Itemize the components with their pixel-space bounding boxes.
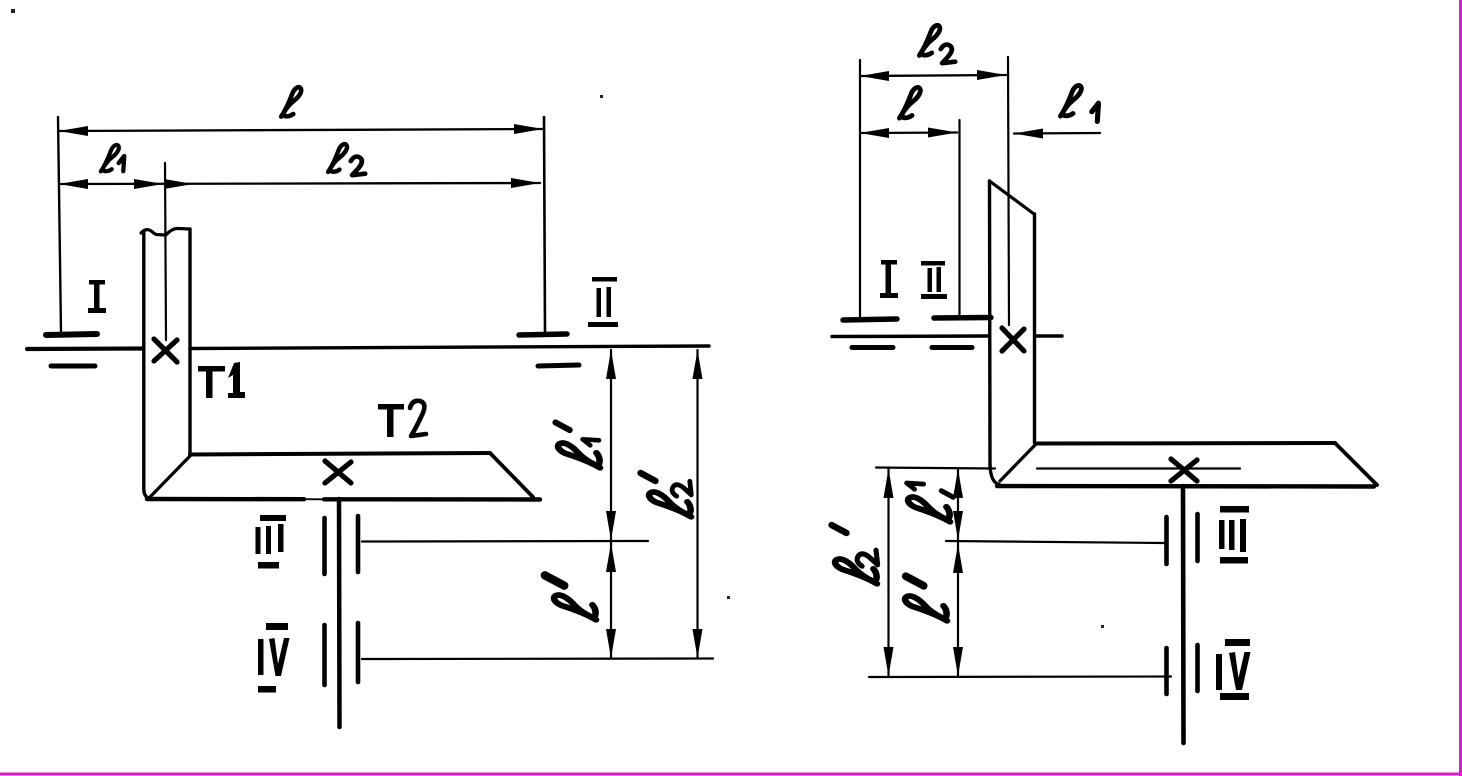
section line IV level right (y=677) [869, 675, 1171, 678]
section bars IV level left [325, 623, 359, 685]
extension line profile (x=1008) [1008, 57, 1009, 325]
section line III level right (y=542) [946, 541, 1164, 543]
extension line left (x=860) [859, 60, 861, 317]
section mark I right [880, 260, 898, 298]
label l' right rotated [905, 576, 947, 621]
section mark III left [256, 515, 287, 569]
section mark IV left [258, 623, 290, 693]
weld point X2 [325, 461, 351, 483]
weld point X4 [1171, 459, 1197, 481]
section bars III level left [325, 516, 359, 574]
ground bar left above axis [46, 334, 97, 335]
weld axis vertical line below right [1181, 486, 1186, 743]
dimension line l right (y=133) [860, 128, 957, 139]
speck near l label [600, 95, 603, 98]
label l2' rotated [641, 473, 692, 517]
label l2 [328, 144, 347, 172]
ground bar left above axis right diagram [843, 319, 897, 320]
ground bar mid above axis right diagram [934, 315, 991, 321]
dimension line l2 right (y=76) [860, 70, 1006, 81]
label l2' right rotated [832, 525, 878, 584]
ground dash right below axis [538, 365, 579, 366]
section bars IV level right [1167, 645, 1198, 694]
scan border right magenta [1459, 0, 1462, 776]
axis stub right of profile [1036, 334, 1062, 338]
angle profile T1/T2 left [141, 228, 540, 499]
extension line mid (x=959) [958, 120, 960, 315]
label l right [899, 87, 920, 118]
speck lower middle [1101, 625, 1104, 628]
scan border bottom magenta [0, 773, 1462, 776]
ground dash left below axis [51, 364, 95, 369]
label l' rotated [545, 575, 596, 620]
dimension line l1' and l' right (x=958) [953, 469, 963, 676]
weld axis thin line through X4 [1037, 467, 1240, 469]
axis line left part [27, 346, 143, 351]
ground dash mid below axis right diagram [932, 345, 972, 350]
angle profile right [990, 181, 1378, 487]
dimension line l2' (x=697) [693, 350, 703, 658]
axis line right diagram [832, 334, 988, 338]
label T1 [198, 362, 245, 398]
weld axis thin line left segment (y=468) [876, 468, 995, 469]
weld point X3 [1002, 328, 1024, 351]
extension line left (x=59) [58, 117, 61, 333]
label l2 right [919, 25, 940, 55]
section mark IV right [1216, 639, 1251, 700]
dimension line l1' (x=611) [606, 350, 616, 540]
dimension line l1 l2 (y=184) [59, 178, 540, 189]
ground bar right above axis [519, 334, 567, 335]
section mark III right [1219, 506, 1249, 564]
section line III level left (y=541) [362, 540, 648, 543]
section bars III level right [1167, 514, 1198, 564]
section mark I [88, 280, 106, 313]
speck right of l' [727, 596, 730, 599]
section mark II with bars [588, 277, 618, 327]
label l1' right rotated [907, 483, 954, 522]
label l1 [101, 145, 119, 172]
label l1 right [1060, 85, 1081, 116]
extension line right (x=544) [544, 117, 545, 332]
axis line main part [190, 346, 709, 349]
ground dash left below axis right diagram [852, 345, 893, 350]
label l [281, 87, 301, 116]
weld point X1 [154, 339, 177, 362]
section mark II right [921, 261, 947, 299]
speck top left [11, 9, 15, 13]
label l1' rotated [555, 422, 600, 467]
section line IV level left (y=659) [362, 657, 713, 660]
weld axis vertical line below left [337, 499, 342, 727]
dimension line l1 right (y=133) [1014, 129, 1100, 139]
dimension line l2' right (x=888) [884, 469, 894, 676]
label T2 [378, 401, 426, 437]
dimension line l' (x=611 lower) [606, 541, 616, 658]
tick extension line (x=165) [165, 163, 166, 340]
dimension line l (y=130) [59, 124, 543, 136]
